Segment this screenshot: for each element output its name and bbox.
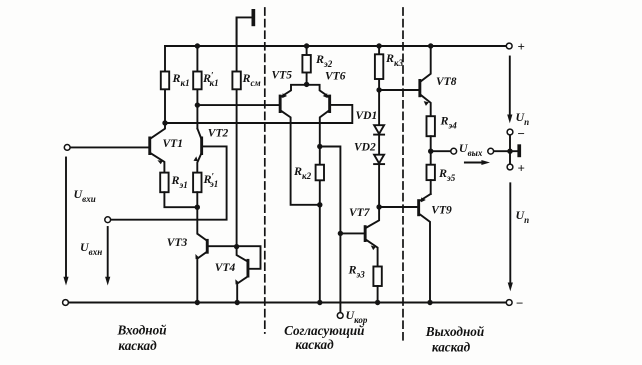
terminal plus mid	[507, 164, 513, 170]
node rail Rk3	[376, 43, 381, 48]
input terminal 1	[64, 145, 70, 151]
svg-text:VT9: VT9	[431, 204, 452, 216]
wire input 2 to VT2 base	[111, 146, 227, 219]
transistor VT2	[193, 129, 203, 173]
node VT3 base / Rcm / VT4 collector	[234, 244, 239, 249]
wire VT6 collector to VT7 base and Ukor	[320, 147, 341, 313]
node VD2 / VT7 collector / VT9 base	[376, 204, 381, 209]
resistor Re3	[373, 267, 381, 303]
terminal Uvyx left	[451, 148, 457, 154]
svg-text:каскад: каскад	[295, 337, 334, 352]
svg-text:+: +	[518, 39, 525, 54]
node mid supply junction	[507, 149, 512, 154]
transistor VT3	[195, 207, 260, 302]
node Rk3 bottom / VD1 / VT8 base	[376, 87, 381, 92]
chassis symbol right	[517, 144, 521, 157]
transistor VT5	[279, 85, 320, 205]
node rail Re3 bottom	[375, 300, 380, 305]
svg-text:Выходной: Выходной	[425, 324, 484, 339]
wire node to VT9 base	[379, 206, 417, 208]
transistor VT7	[340, 207, 379, 267]
chassis symbol top	[237, 9, 256, 46]
svg-text:каскад: каскад	[432, 340, 471, 355]
node VT1 collector line	[162, 120, 167, 125]
svg-text:+: +	[518, 161, 525, 176]
voltage arrow Up upper	[507, 57, 512, 124]
node VT6 collector / Rk2	[317, 144, 322, 149]
node rail VT4 emitter	[235, 300, 240, 305]
svg-text:каскад: каскад	[118, 338, 157, 353]
terminal minus mid	[507, 129, 513, 135]
svg-text:VT5: VT5	[272, 69, 293, 81]
input terminal 2	[105, 217, 111, 223]
svg-text:VT1: VT1	[163, 138, 183, 150]
node rail Rk2 bottom	[317, 300, 322, 305]
node rail VT3 emitter	[195, 300, 200, 305]
resistor R'k1	[193, 46, 201, 129]
svg-text:−: −	[518, 126, 525, 141]
terminal plus top right	[506, 43, 512, 49]
output direction arrow	[465, 160, 490, 165]
node emitter junction	[195, 205, 200, 210]
resistor Rk3	[375, 46, 383, 90]
svg-text:VT3: VT3	[167, 237, 188, 249]
node VT5 collector / Rk2 bottom	[317, 202, 322, 207]
diode VD1	[374, 90, 384, 135]
svg-text:VT7: VT7	[349, 207, 371, 219]
resistor Re5	[427, 151, 435, 194]
terminal Ukor	[337, 313, 343, 319]
svg-text:VT8: VT8	[436, 76, 457, 88]
wire input 1 to VT1 base	[70, 146, 148, 148]
svg-text:−: −	[516, 296, 523, 311]
terminal minus bottom right	[506, 300, 512, 306]
svg-text:VT2: VT2	[208, 128, 229, 140]
wire bottom common rail	[68, 302, 506, 304]
terminal Uvyx right	[488, 148, 494, 154]
wire output to terminals	[431, 150, 517, 152]
wire VT1 collector to VT6 base (node line)	[165, 105, 352, 123]
voltage arrow Uvx2	[105, 227, 110, 286]
node rail R'k1 top	[195, 43, 200, 48]
transistor VT9	[417, 194, 431, 303]
wire mid junction verticals	[509, 135, 511, 164]
wire top supply rail	[165, 45, 506, 47]
resistor Rcm	[232, 17, 240, 246]
svg-text:Согласующий: Согласующий	[284, 323, 364, 338]
node rail VT9 collector	[427, 300, 432, 305]
resistor Rk1	[161, 46, 169, 123]
node VT5 VT6 common emitter	[304, 82, 309, 87]
stage boundary dashed line 2	[402, 8, 404, 342]
stage boundary dashed line 1	[264, 8, 266, 333]
terminal bottom left	[63, 300, 69, 306]
resistor Re1	[160, 173, 197, 208]
node rail Re2	[304, 43, 309, 48]
voltage arrow Uvx1	[63, 158, 68, 286]
resistor Rk2	[316, 147, 324, 303]
svg-text:VT4: VT4	[215, 262, 236, 274]
resistor Re4	[427, 116, 435, 151]
transistor VT4	[235, 247, 249, 303]
diode VD2	[374, 135, 384, 207]
svg-text:VD1: VD1	[356, 110, 378, 122]
svg-text:Входной: Входной	[116, 323, 166, 338]
transistor VT8	[379, 46, 431, 116]
svg-text:VT6: VT6	[325, 71, 346, 83]
node R'k1 to VT5 base	[195, 102, 200, 107]
svg-text:VD2: VD2	[354, 142, 376, 154]
node rail VT8 collector	[428, 43, 433, 48]
voltage arrow Up lower	[508, 183, 513, 291]
resistor R'e1	[193, 173, 201, 208]
node output	[428, 149, 433, 154]
wire R'k1 node to VT5 base	[197, 104, 278, 106]
transistor VT1	[148, 123, 165, 173]
node VT7 base	[338, 231, 343, 236]
resistor Re2	[302, 46, 310, 85]
transistor VT6	[307, 85, 332, 147]
